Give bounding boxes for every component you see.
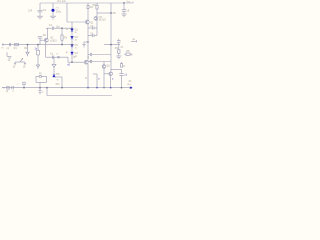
- svg-text:Q5: Q5: [106, 65, 110, 68]
- resistor R12: [18, 82, 26, 88]
- svg-text:C6: C6: [43, 9, 47, 12]
- capacitor C9: [50, 53, 54, 59]
- svg-text:R6: R6: [113, 12, 117, 15]
- transistor Q1: [85, 20, 94, 24]
- wire upper drive H: [87, 53, 111, 60]
- output terminal: [127, 80, 132, 89]
- svg-text:p: p: [98, 77, 100, 80]
- power terminal VCC: [127, 0, 134, 3]
- transistor Q5: [102, 65, 110, 69]
- transistor Q0: [44, 37, 57, 43]
- resistor R13: [39, 73, 42, 78]
- svg-text:D3: D3: [75, 44, 79, 47]
- svg-text:100u: 100u: [56, 10, 62, 13]
- svg-text:D4: D4: [75, 52, 79, 55]
- wire H mid-right: [104, 44, 120, 46]
- feedback loop box: [36, 76, 46, 82]
- wire feedback drop: [39, 82, 41, 87]
- svg-text:in: in: [1, 46, 4, 49]
- svg-text:R3: R3: [64, 37, 68, 40]
- svg-text:2k: 2k: [23, 66, 26, 69]
- resistor R3: [61, 28, 68, 44]
- wire lower drive H: [88, 60, 111, 63]
- wire Q2 base line: [67, 62, 84, 66]
- svg-text:e: e: [57, 53, 59, 56]
- svg-text:c: c: [42, 91, 44, 94]
- ground: [116, 56, 121, 59]
- capacitor C7 (electrolytic, blue body): [52, 3, 62, 16]
- input arrow: [2, 87, 4, 88]
- chassis ground: [52, 57, 56, 74]
- potentiometer P1: [13, 58, 27, 68]
- capacitor C3: [88, 25, 97, 30]
- wire Q0 emitter: [45, 42, 47, 57]
- wire Q3 emitter: [96, 20, 98, 36]
- capacitor C6: [28, 3, 47, 16]
- zobel capacitor C12: [119, 74, 127, 88]
- svg-text:41: 41: [75, 40, 78, 42]
- svg-text:41: 41: [75, 32, 78, 34]
- node junctions: [23, 2, 124, 88]
- svg-text:D1: D1: [75, 29, 79, 32]
- ground: [37, 16, 43, 19]
- svg-text:104: 104: [28, 10, 33, 13]
- svg-text:D2: D2: [75, 36, 79, 39]
- bottom signal rail: [2, 87, 131, 89]
- svg-text:D5: D5: [56, 73, 60, 76]
- svg-text:s1: s1: [6, 90, 9, 93]
- capacitor C11: [39, 88, 44, 95]
- svg-text:r: r: [18, 83, 19, 86]
- wire H collector link: [97, 12, 116, 15]
- wire: [56, 77, 62, 88]
- wire top VCC rail: [40, 2, 133, 4]
- svg-text:Q1: Q1: [90, 21, 94, 24]
- svg-text:c: c: [13, 90, 15, 93]
- wire Q6 base: [104, 73, 109, 75]
- svg-text:c1: c1: [6, 47, 9, 50]
- transistor Q3: [94, 16, 106, 22]
- resistor R5: [93, 3, 99, 17]
- svg-text:R: R: [87, 56, 89, 59]
- ground stub: [82, 42, 88, 47]
- label VCC net: [57, 0, 67, 3]
- wire: [66, 3, 68, 22]
- resistor R4: [87, 3, 94, 20]
- svg-text:c5: c5: [120, 46, 123, 49]
- terminal T2 stub: [131, 38, 137, 43]
- transistor Q6: [109, 72, 113, 76]
- svg-text:c3: c3: [124, 74, 127, 77]
- ground: [121, 14, 126, 17]
- svg-text:p: p: [112, 77, 114, 80]
- trimmer VR1: [36, 55, 39, 69]
- capacitor C2: [46, 24, 72, 30]
- node symbol K1: [7, 52, 11, 62]
- inductor L1: [120, 62, 125, 68]
- resistor R9: [115, 45, 120, 56]
- svg-text:41: 41: [75, 48, 78, 50]
- svg-text:R: R: [85, 77, 87, 80]
- wire: [46, 88, 48, 96]
- svg-text:1k: 1k: [8, 59, 11, 62]
- svg-text:2k: 2k: [13, 66, 16, 69]
- resistor R11: [34, 45, 39, 55]
- svg-text:c8: c8: [127, 9, 130, 12]
- bottom return rail: [47, 95, 112, 97]
- node junction: [57, 53, 60, 59]
- wire Q5 collector: [103, 62, 105, 65]
- svg-text:Rf: Rf: [39, 73, 42, 76]
- wire Q2 emitter down: [85, 64, 88, 88]
- resistor R1: [14, 43, 19, 50]
- wire Q5 emitter: [103, 68, 105, 87]
- diode D1: [66, 28, 78, 34]
- svg-text:RL: RL: [129, 80, 133, 83]
- wire: [67, 57, 69, 62]
- wire Q1 base line: [67, 21, 85, 23]
- svg-text:Vcc 24v: Vcc 24v: [57, 0, 67, 3]
- diode D2: [71, 36, 79, 42]
- wire emitter line H: [46, 56, 68, 58]
- capacitor C10: [12, 86, 15, 93]
- wire Q6 emitter: [111, 76, 114, 88]
- svg-text:R1: R1: [14, 47, 18, 50]
- svg-text:8: 8: [131, 53, 133, 56]
- emitter resistor wire: [93, 74, 100, 88]
- svg-text:C3: C3: [90, 25, 94, 28]
- wire V main right bus: [110, 3, 112, 72]
- svg-text:Ce: Ce: [50, 53, 54, 56]
- svg-text:10u: 10u: [56, 25, 61, 28]
- input terminal: [1, 43, 72, 49]
- wire Q0 collector: [47, 28, 49, 39]
- resistor R2: [38, 34, 47, 44]
- resistor R10 + ground: [24, 45, 29, 57]
- diode D5: [53, 73, 62, 81]
- svg-text:c1815: c1815: [50, 39, 57, 42]
- svg-text:a1015: a1015: [99, 19, 107, 22]
- svg-text:out: out: [127, 83, 131, 86]
- svg-text:R: R: [66, 51, 68, 54]
- svg-text:R2: R2: [43, 34, 47, 37]
- diode D3: [71, 44, 79, 50]
- source S1: [6, 86, 10, 93]
- capacitor C8 bypass right: [122, 3, 130, 14]
- resistor R8: [124, 50, 133, 56]
- svg-text:sp: sp: [132, 38, 135, 41]
- transistor Q2: [84, 60, 93, 64]
- capacitor C1: [6, 43, 10, 50]
- svg-text:w: w: [57, 79, 59, 82]
- capacitor C4: [88, 33, 97, 38]
- svg-text:Rf2: Rf2: [56, 83, 61, 86]
- svg-text:a5: a5: [67, 64, 70, 67]
- ground: [50, 16, 56, 19]
- svg-text:R: R: [123, 65, 125, 68]
- svg-text:C4: C4: [90, 33, 94, 36]
- wire Q1 emitter to Q2 collector: [87, 24, 89, 61]
- wire output column: [111, 70, 122, 74]
- diode D4: [66, 51, 79, 59]
- wire diode chain bus: [71, 22, 73, 62]
- capacitor C5: [117, 39, 124, 49]
